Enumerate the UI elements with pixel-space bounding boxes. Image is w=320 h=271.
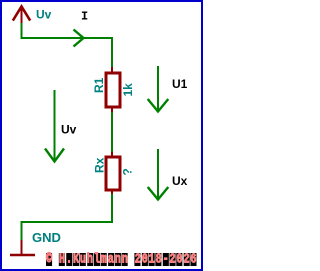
svg-text:Uv: Uv	[61, 123, 77, 137]
svg-text:GND: GND	[32, 230, 61, 245]
copyright line	[46, 253, 197, 266]
voltage arrow Uv (green, down, middle)	[45, 90, 64, 162]
voltage arrow Ux (green, down)	[148, 149, 169, 200]
ground	[10, 240, 35, 255]
svg-text:U1: U1	[172, 77, 188, 91]
wire: Rx down, bottom rail, to ground	[22, 194, 113, 241]
svg-text:1k: 1k	[121, 83, 135, 97]
wire: top rail down to R1	[111, 37, 113, 69]
svg-text:Rx: Rx	[93, 157, 107, 173]
svg-text:I: I	[81, 10, 88, 24]
current arrowhead I (green, right)	[74, 30, 84, 47]
voltage source arrow (maroon, up)	[14, 7, 30, 24]
resistor R1	[106, 67, 120, 113]
resistor Rx	[106, 152, 120, 195]
svg-text:Ux: Ux	[172, 174, 188, 188]
wire: source to top-left corner and top rail	[22, 23, 113, 38]
voltage arrow U1 (green, down)	[148, 66, 169, 112]
wire: R1 to Rx	[111, 112, 113, 154]
svg-text:Uv: Uv	[36, 8, 52, 22]
svg-text:R1: R1	[92, 77, 106, 93]
svg-text:?: ?	[121, 168, 135, 175]
